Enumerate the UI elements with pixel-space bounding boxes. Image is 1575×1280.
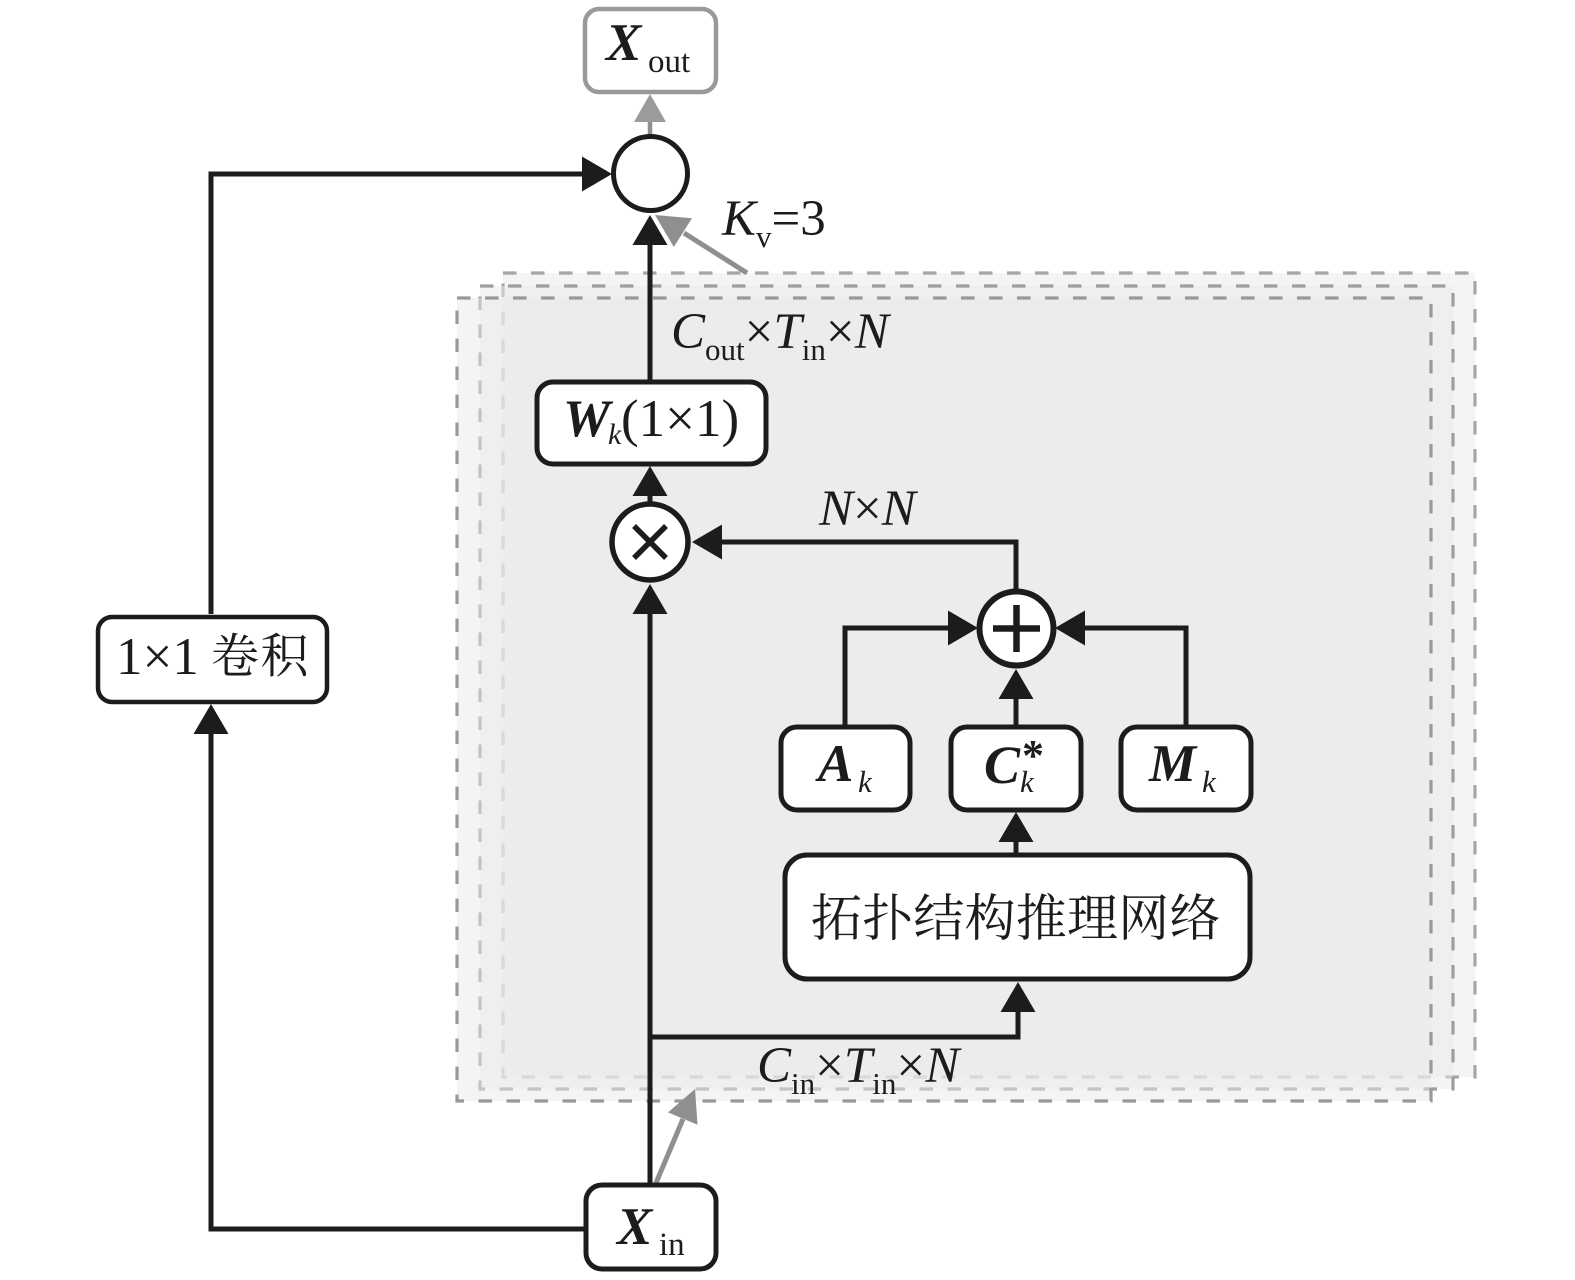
svg-text:C: C xyxy=(984,735,1021,795)
svg-text:in: in xyxy=(659,1227,685,1263)
svg-text:A: A xyxy=(815,735,853,793)
svg-text:out: out xyxy=(648,44,690,80)
svg-text:N×N: N×N xyxy=(818,481,919,537)
svg-text:k: k xyxy=(858,764,873,799)
svg-text:k: k xyxy=(1202,764,1217,799)
svg-text:Cin×Tin×N: Cin×Tin×N xyxy=(757,1038,962,1101)
svg-text:*: * xyxy=(1022,731,1044,780)
svg-text:Kv=3: Kv=3 xyxy=(721,191,826,254)
svg-text:k: k xyxy=(608,418,622,451)
svg-text:W: W xyxy=(563,390,614,448)
svg-text:Cout×Tin×N: Cout×Tin×N xyxy=(671,304,892,367)
svg-text:(1×1): (1×1) xyxy=(621,390,739,448)
svg-text:X: X xyxy=(604,14,643,72)
svg-text:1×1: 1×1 xyxy=(116,628,199,686)
svg-text:X: X xyxy=(615,1198,654,1256)
svg-text:M: M xyxy=(1148,735,1198,793)
